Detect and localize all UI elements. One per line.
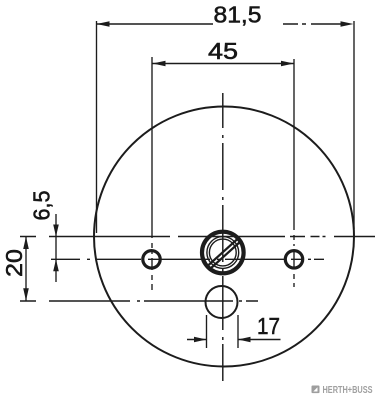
- svg-text:17: 17: [257, 313, 280, 339]
- svg-text:20: 20: [1, 249, 27, 277]
- svg-text:45: 45: [208, 38, 238, 64]
- svg-text:81,5: 81,5: [214, 2, 262, 28]
- svg-text:6,5: 6,5: [29, 191, 55, 221]
- svg-text:HERTH+BUSS: HERTH+BUSS: [323, 385, 373, 396]
